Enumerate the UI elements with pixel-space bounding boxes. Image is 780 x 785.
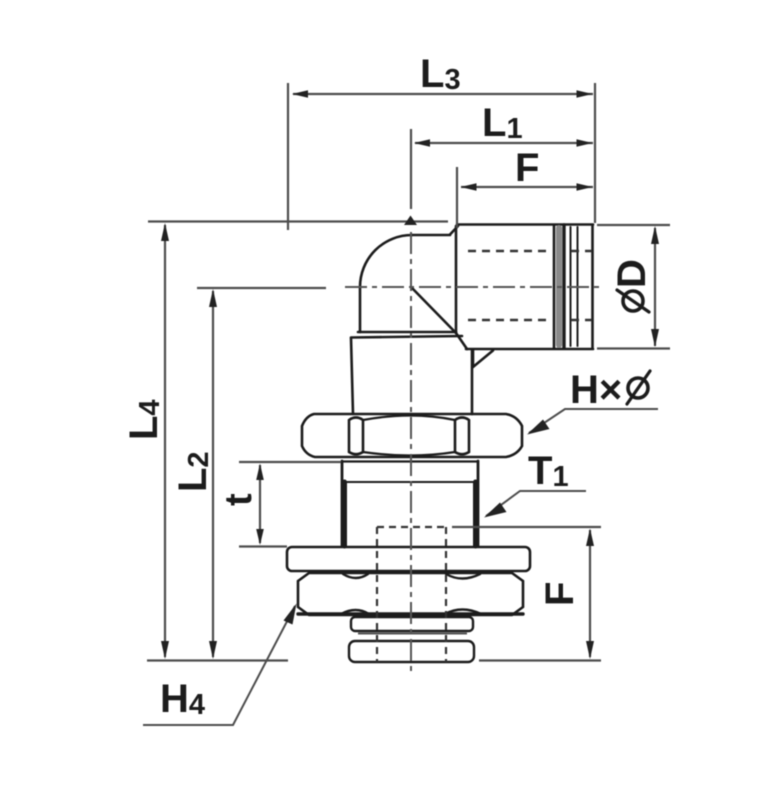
- body bottom-left chamfer: [456, 333, 467, 349]
- L1 arrows: [414, 139, 430, 147]
- svg-text:D: D: [610, 259, 654, 288]
- svg-text:F: F: [538, 582, 582, 606]
- collet groove gray fill: [556, 228, 562, 345]
- L4 dim line: [164, 225, 166, 657]
- hex center face top arc: [363, 416, 455, 421]
- locknut bottom facet arc left: [341, 610, 369, 614]
- label L1: [482, 101, 523, 145]
- thread right edge: [477, 461, 480, 546]
- hex facet band right: [455, 418, 469, 455]
- t arrows: [256, 464, 264, 481]
- hex center face bottom arc: [363, 452, 455, 456]
- elbow inner chamfer diagonal: [412, 288, 456, 333]
- L1 ext line left: [410, 129, 412, 209]
- label phiD: [610, 259, 654, 312]
- label F top: [515, 146, 539, 190]
- phiD dim line: [654, 228, 656, 346]
- cone skirt right edge: [471, 350, 474, 414]
- hole hidden right: [445, 527, 447, 662]
- t dim line: [259, 465, 261, 543]
- ring groove line: [358, 633, 467, 635]
- label T1: [528, 449, 569, 493]
- locknut bottom thick edge: [298, 612, 523, 615]
- svg-text:L2: L2: [171, 451, 215, 492]
- hidden dashed lines: body bore: [468, 251, 592, 320]
- hex nut HxPhi: [302, 414, 522, 457]
- F2 ext bottom: [479, 659, 601, 661]
- t ext bottom: [239, 545, 287, 547]
- collet right edge: [591, 225, 594, 348]
- svg-text:T1: T1: [528, 449, 569, 493]
- svg-text:L4: L4: [122, 399, 166, 440]
- elbow outer arc: [360, 235, 412, 287]
- svg-text:H×: H×: [570, 368, 622, 412]
- hidden dashed panel hole: [377, 527, 446, 662]
- elbow top chamfer: [450, 226, 458, 235]
- t ext top: [239, 461, 341, 463]
- L3 ext line left: [287, 83, 289, 230]
- svg-text:L3: L3: [420, 52, 461, 96]
- L3 dim line: [293, 93, 593, 95]
- F dim line: [461, 186, 593, 188]
- body top edge: [457, 223, 593, 226]
- hole hidden top: [377, 526, 446, 528]
- F arrows: [461, 183, 477, 191]
- locknut facet dip right: [446, 574, 480, 579]
- L4/L2 ext bottom: [147, 659, 288, 661]
- centerline vertical: [410, 232, 412, 672]
- F ext line left: [456, 167, 458, 228]
- svg-text:F: F: [515, 146, 539, 190]
- collet hidden ticks upper: [571, 250, 592, 252]
- F2 ext top: [452, 526, 601, 528]
- label L3: [420, 52, 461, 96]
- hex facet band left: [349, 418, 363, 455]
- L3/L1/F ext line right: [594, 83, 596, 223]
- phiD arrows: [651, 226, 659, 244]
- svg-text:t: t: [218, 493, 260, 506]
- T1 leader: [486, 491, 586, 516]
- retaining ring 1: [349, 617, 474, 662]
- thread major band right: [473, 482, 478, 546]
- phiD ext top: [597, 224, 670, 226]
- T1 leader arrowhead: [484, 503, 507, 518]
- elbow-body joint line: [455, 226, 458, 333]
- locknut facet dip left: [343, 574, 368, 578]
- collet line 3: [570, 227, 572, 346]
- elbow left edge: [359, 287, 362, 332]
- HxPhi leader: [529, 409, 658, 433]
- thread left edge: [341, 461, 344, 546]
- label L2: [171, 451, 215, 492]
- arrowheads: [161, 90, 659, 659]
- cone skirt top edge: [351, 336, 462, 338]
- bottom cap ring: [349, 641, 474, 662]
- L2 arrows: [209, 289, 217, 307]
- elbow top edge: [411, 234, 450, 237]
- label HxPhi: [570, 368, 650, 412]
- L2 dim line: [212, 291, 214, 657]
- svg-text:H4: H4: [160, 677, 205, 721]
- L1 dim line: [415, 142, 593, 144]
- centerline top tick arrow: [404, 216, 417, 226]
- label t small: [218, 493, 260, 506]
- L2 ext top: [197, 287, 326, 289]
- label H4: [160, 677, 205, 721]
- body bottom edge: [466, 348, 593, 351]
- F2 dim line: [589, 530, 591, 657]
- collet groove line 2: [562, 225, 565, 348]
- L4 arrows: [161, 223, 169, 241]
- hex locknut H4: [298, 573, 523, 615]
- phiD ext bottom: [597, 347, 670, 349]
- H4 leader: [143, 606, 295, 725]
- locknut outline: [298, 573, 523, 615]
- label L4: [122, 399, 166, 440]
- thread shoulder top: [342, 460, 478, 462]
- bore hidden line upper: [468, 250, 550, 252]
- label F bottom: [538, 582, 582, 606]
- cone skirt left edge: [351, 338, 353, 414]
- bore hidden line lower: [468, 319, 550, 321]
- F2 arrows: [586, 529, 594, 547]
- collet hidden ticks lower: [571, 319, 592, 321]
- threaded section T1: [342, 461, 478, 546]
- HxPhi leader arrowhead: [527, 420, 550, 435]
- thread relief line: [347, 481, 473, 483]
- H4 leader arrowhead: [284, 604, 297, 625]
- hex outline: [302, 414, 522, 457]
- elbow leg bottom edge: [358, 331, 456, 334]
- L4 ext top: [148, 220, 448, 222]
- thread major band left: [342, 482, 347, 546]
- svg-text:L1: L1: [482, 101, 523, 145]
- collet line 4: [577, 227, 579, 346]
- body cone transition triangle: [473, 350, 493, 367]
- centerline horizontal: [345, 286, 604, 288]
- L3 arrows: [292, 90, 308, 98]
- panel washer plate: [287, 547, 530, 571]
- collet groove line 1: [553, 225, 556, 348]
- hole hidden left: [376, 527, 378, 662]
- locknut bottom facet arc right: [445, 610, 481, 615]
